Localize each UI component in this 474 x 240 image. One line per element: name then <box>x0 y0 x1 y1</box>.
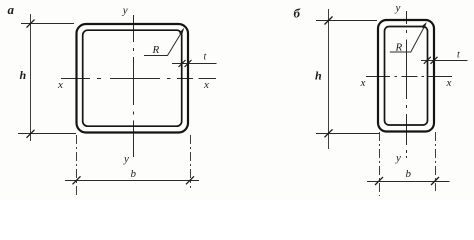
dimension h (right figure): extension line bottom <box>316 133 379 135</box>
svg-text:x: x <box>57 79 63 91</box>
svg-text:R: R <box>152 44 160 56</box>
inner contour of rectangular tube (б) <box>385 27 428 126</box>
svg-text:а: а <box>8 2 15 17</box>
t tick outer wall (right figure) <box>431 57 438 64</box>
inner contour of square tube (а) <box>83 30 182 126</box>
dimension b (left figure): extension line right <box>190 135 192 188</box>
dimension b (right figure): dimension line <box>367 181 450 183</box>
outer contour of square tube (а) <box>77 24 189 133</box>
dimension h tick top (right figure) <box>325 17 333 25</box>
svg-text:x: x <box>360 77 366 89</box>
outer contour of rectangular tube (б) <box>378 20 434 132</box>
dimension h tick top <box>27 20 35 28</box>
dimension h (left figure): extension line top <box>21 23 74 25</box>
dimension h tick bottom <box>27 130 35 138</box>
dimension b (left figure): extension line left <box>76 135 78 197</box>
radius leader arrowhead (right figure) <box>421 22 427 29</box>
svg-text:t: t <box>457 50 460 61</box>
dimension b tick left (right figure) <box>375 177 383 185</box>
svg-text:x: x <box>203 79 209 91</box>
wall thickness t dimension line (right figure) <box>421 60 468 62</box>
svg-text:y: y <box>395 2 401 14</box>
centerline x-x (left figure) <box>61 78 216 80</box>
t tick inner wall (left figure) <box>179 60 186 67</box>
dimension b (right figure): extension line right <box>435 132 437 191</box>
wall thickness t dimension line (left figure) <box>172 63 217 65</box>
svg-text:R: R <box>395 42 403 54</box>
svg-text:b: b <box>131 168 137 180</box>
centerline y-y (left figure) <box>133 15 135 157</box>
dimension b (right figure): extension line left <box>379 132 381 196</box>
t tick outer wall (left figure) <box>185 60 192 67</box>
svg-text:h: h <box>315 69 322 83</box>
dimension b (left figure): dimension line <box>65 180 199 182</box>
svg-text:h: h <box>20 68 27 82</box>
radius leader R (left figure) <box>144 30 183 56</box>
centerline y-y (right figure) <box>406 11 408 158</box>
dimension h (left figure): extension line bottom <box>18 133 76 135</box>
dimension h tick bottom (right figure) <box>325 129 333 137</box>
svg-text:x: x <box>446 77 452 89</box>
svg-text:t: t <box>204 52 207 63</box>
radius leader arrowhead (left figure) <box>179 28 184 35</box>
svg-text:y: y <box>122 5 128 17</box>
dimension h (left figure): dimension line <box>30 14 32 141</box>
svg-text:б: б <box>294 6 301 21</box>
svg-text:y: y <box>123 153 129 165</box>
radius leader R (right figure) <box>390 25 426 53</box>
dimension b tick right <box>186 176 194 184</box>
dimension b tick right (right figure) <box>431 177 439 185</box>
t tick inner wall (right figure) <box>424 57 431 64</box>
svg-text:y: y <box>395 152 401 164</box>
centerline x-x (right figure) <box>366 76 452 78</box>
svg-text:b: b <box>406 168 412 180</box>
dimension h (right figure): extension line top <box>316 20 377 22</box>
dimension h (right figure): dimension line <box>328 9 330 149</box>
dimension b tick left <box>73 176 81 184</box>
